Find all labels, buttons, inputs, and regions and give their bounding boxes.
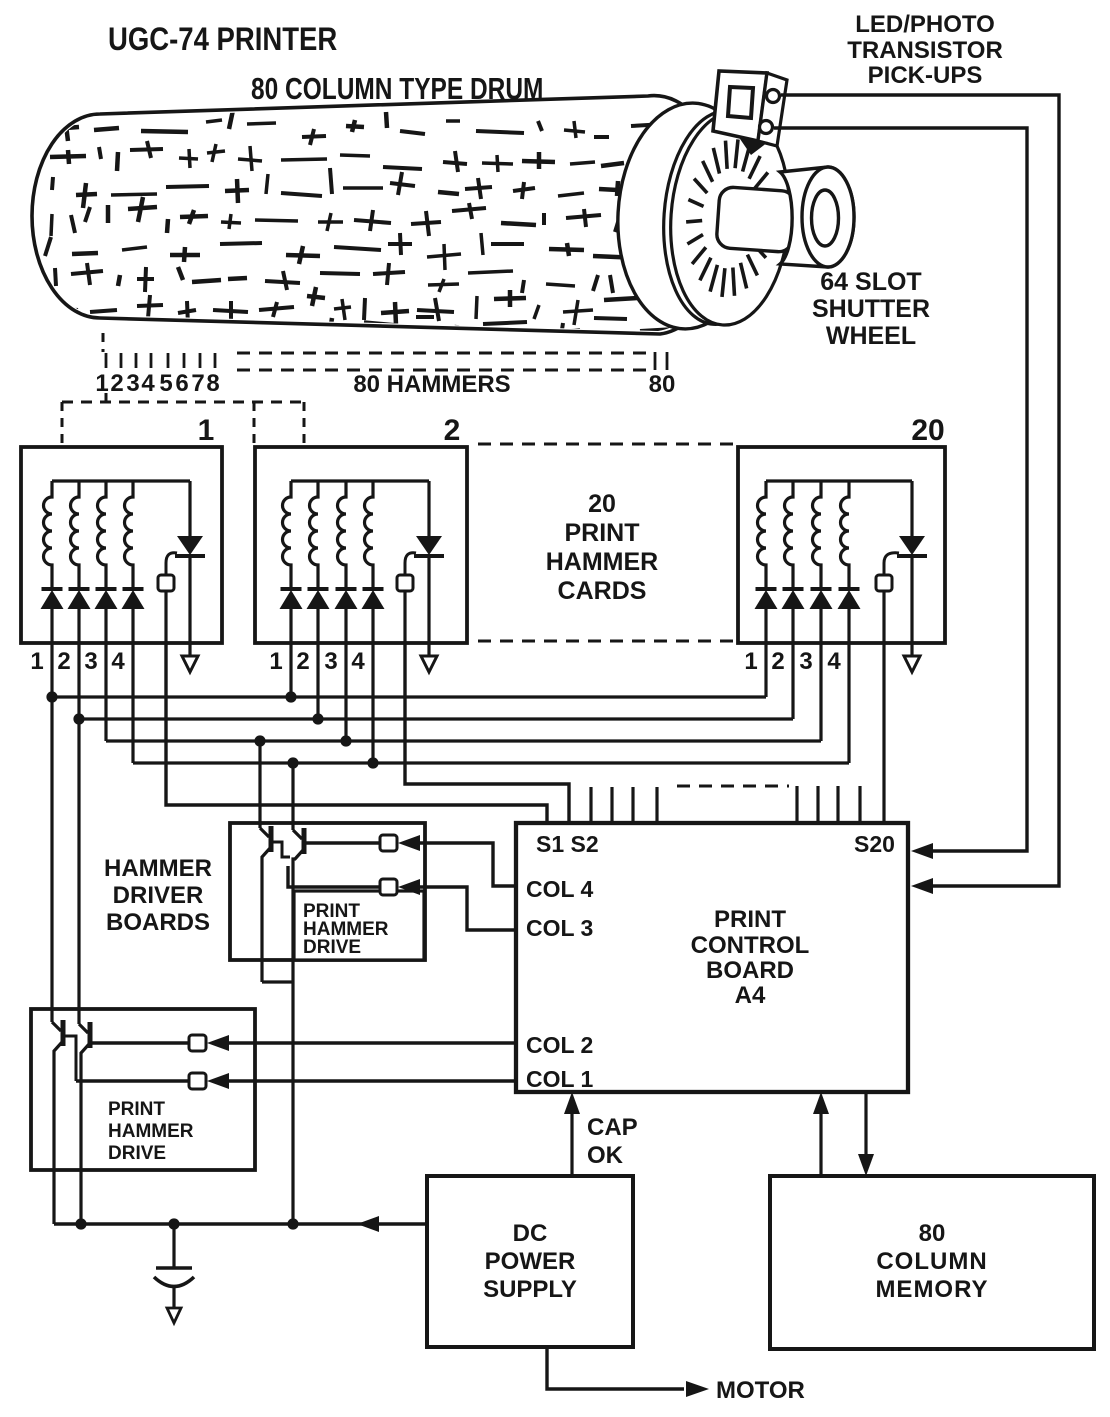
svg-text:SHUTTER: SHUTTER (812, 295, 930, 323)
dashed drop to card 1 (61, 402, 64, 447)
svg-text:7: 7 (191, 370, 204, 397)
svg-text:S20: S20 (854, 831, 895, 857)
wire board to memory down (864, 1092, 867, 1161)
svg-text:HAMMER: HAMMER (546, 548, 659, 576)
svg-text:COLUMN: COLUMN (876, 1248, 987, 1275)
svg-text:A4: A4 (735, 982, 766, 1009)
PHD2 feed from bus 1 (50, 697, 53, 1022)
svg-text:OK: OK (587, 1142, 624, 1169)
card 1 pin 1 lead (50, 609, 53, 643)
transistor Q1b (293, 830, 302, 839)
svg-text:2: 2 (296, 648, 309, 675)
coil L1-2 (71, 481, 80, 589)
svg-text:2: 2 (110, 370, 123, 397)
diode CR20-1 (756, 587, 777, 591)
svg-text:S1 S2: S1 S2 (536, 831, 599, 857)
svg-text:PRINT: PRINT (714, 906, 786, 933)
card 1 pin 4 lead (131, 609, 134, 643)
svg-text:3: 3 (799, 648, 812, 675)
arrowhead COL1 (207, 1073, 229, 1089)
card 2 pin 4 lead (371, 609, 374, 643)
80 column memory box (770, 1176, 1094, 1349)
svg-text:BOARDS: BOARDS (106, 909, 210, 936)
svg-text:4: 4 (827, 648, 841, 675)
svg-text:WHEEL: WHEEL (826, 322, 916, 350)
diode CR1-2 (69, 587, 90, 591)
dashed link from numbers down (105, 393, 108, 402)
svg-text:8: 8 (206, 370, 219, 397)
svg-text:64 SLOT: 64 SLOT (820, 268, 921, 296)
card 2 pin 3 lead (344, 609, 347, 643)
coil L20-1 (758, 481, 767, 589)
diode CR20-4 (839, 587, 860, 591)
print hammer drive board 1 box (230, 823, 425, 960)
svg-text:DRIVE: DRIVE (303, 937, 361, 958)
coil L2-4 (365, 481, 374, 589)
card 2 pin 2 lead (316, 609, 319, 643)
svg-text:4: 4 (351, 648, 365, 675)
svg-text:DRIVER: DRIVER (113, 882, 204, 909)
card 20 pin 2 lead (791, 609, 794, 643)
arrowhead COL2 (207, 1035, 229, 1051)
svg-text:1: 1 (269, 648, 282, 675)
arrowhead COL4 (398, 835, 420, 851)
svg-text:2: 2 (444, 414, 461, 447)
svg-text:DRIVE: DRIVE (108, 1143, 166, 1164)
strobe connector square card 20 (876, 575, 892, 591)
coil L2-2 (310, 481, 319, 589)
svg-text:UGC-74 PRINTER: UGC-74 PRINTER (108, 22, 337, 57)
diode CR20-2 (783, 587, 804, 591)
diode CR2-4 (363, 587, 384, 591)
wire S20 strobe route (882, 643, 885, 823)
connector square COL2 (189, 1035, 206, 1051)
svg-text:20: 20 (588, 490, 616, 518)
coil L2-1 (283, 481, 292, 589)
dashed 80 hammers row upper (237, 352, 648, 355)
svg-text:2: 2 (771, 648, 784, 675)
svg-text:BOARD: BOARD (706, 957, 794, 984)
card 20 pin 3 lead (819, 609, 822, 643)
svg-text:SUPPLY: SUPPLY (483, 1276, 577, 1303)
svg-text:80: 80 (649, 371, 676, 398)
connector square COL1 (189, 1073, 206, 1089)
64 slot shutter wheel (657, 107, 802, 330)
PHD2 feed from bus 2 (77, 719, 80, 1024)
wheel slot marks (756, 230, 772, 237)
transistor Q1a (260, 828, 269, 837)
SCR Q20 (910, 481, 913, 536)
svg-text:5: 5 (159, 370, 172, 397)
svg-text:3: 3 (126, 370, 139, 397)
svg-text:4: 4 (141, 370, 155, 397)
coil L1-3 (98, 481, 107, 589)
svg-text:HAMMER: HAMMER (104, 855, 212, 882)
svg-text:20: 20 (911, 414, 944, 447)
hammer tick marks 1-8 (105, 353, 108, 368)
wire S1 strobe route (166, 643, 547, 823)
strobe lead card 20 (882, 591, 885, 643)
card 2 internal top bus (291, 479, 429, 482)
strobe connector square card 1 (158, 575, 174, 591)
svg-text:DC: DC (513, 1220, 548, 1247)
svg-text:COL 1: COL 1 (526, 1066, 594, 1092)
svg-text:80: 80 (919, 1220, 946, 1247)
svg-text:PICK-UPS: PICK-UPS (868, 62, 983, 89)
wire CAP OK (570, 1107, 573, 1176)
card 1 internal top bus (52, 479, 190, 482)
svg-text:3: 3 (84, 648, 97, 675)
card 2 pin 1 lead (289, 609, 292, 643)
diode CR2-2 (308, 587, 329, 591)
arrowhead DC supply feed (357, 1216, 379, 1232)
wire COL3 row (288, 866, 380, 887)
wire COL2 row (90, 1041, 189, 1044)
wire bus pins 4 (133, 761, 849, 764)
svg-text:LED/PHOTO: LED/PHOTO (855, 11, 995, 38)
diode CR20-3 (811, 587, 832, 591)
dashed 20 print hammer cards box top (478, 443, 738, 446)
wire bus pins 2 (79, 717, 793, 720)
wire S2 strobe route (405, 643, 569, 823)
wire COL1 row (76, 1079, 189, 1082)
svg-text:COL 3: COL 3 (526, 915, 593, 941)
arrowhead up into board (813, 1092, 829, 1114)
dashed 20 print hammer cards box bottom (478, 640, 738, 643)
svg-text:HAMMER: HAMMER (108, 1121, 194, 1142)
pickup pointer arrow (738, 136, 768, 155)
diode CR1-4 (123, 587, 144, 591)
board top stub pins left (589, 787, 592, 823)
card 20 pin 1 lead (764, 609, 767, 643)
drum end rim (612, 99, 766, 332)
card 20 internal top bus (766, 479, 912, 482)
DC power supply box (427, 1176, 633, 1347)
svg-text:2: 2 (57, 648, 70, 675)
shaft end cylinder (780, 167, 854, 267)
wire MOTOR (547, 1347, 684, 1389)
connector square COL3 (380, 879, 397, 895)
dashed horizontal link (62, 401, 304, 404)
card 1 pin 3 lead (104, 609, 107, 643)
transistor Q2b (79, 1024, 88, 1033)
transistor Q2a (52, 1022, 61, 1031)
print hammer drive board 2 box (31, 1009, 255, 1170)
coil L20-4 (841, 481, 850, 589)
svg-text:CAP: CAP (587, 1114, 638, 1141)
print hammer card 2 (255, 447, 467, 643)
80 column type drum body (32, 96, 729, 334)
svg-text:1: 1 (95, 370, 108, 397)
capacitor chassis arrow (167, 1308, 181, 1323)
svg-text:MOTOR: MOTOR (716, 1377, 805, 1404)
wire DC supply bus (54, 1222, 427, 1225)
board top stub pins right (795, 786, 798, 823)
svg-text:PRINT: PRINT (108, 1099, 165, 1120)
arrowhead CAP OK (564, 1092, 580, 1114)
dashed strobe continuation (677, 785, 789, 788)
chassis arrow card 1 (182, 656, 198, 672)
wheel hub (716, 186, 796, 252)
arrowhead MOTOR (686, 1381, 709, 1397)
diode CR1-3 (96, 587, 117, 591)
coil L1-1 (44, 481, 53, 589)
arrowhead down into memory (858, 1154, 874, 1176)
diode CR1-1 (42, 587, 63, 591)
chassis arrow card 20 (904, 656, 920, 672)
svg-text:COL 4: COL 4 (526, 876, 594, 902)
SCR Q1 (188, 481, 191, 536)
diode CR2-3 (336, 587, 357, 591)
strobe lead card 1 (164, 591, 167, 643)
svg-text:6: 6 (175, 370, 188, 397)
svg-text:4: 4 (111, 648, 125, 675)
SCR 20 gate lead (884, 553, 899, 575)
arrowhead into board right edge upper (911, 843, 933, 859)
coil L2-3 (338, 481, 347, 589)
hammer tick marks 80 (654, 352, 657, 370)
strobe lead card 2 (403, 591, 406, 643)
card1 pin1 drop / card20 pin1 drop (50, 643, 53, 697)
print hammer card 20 (738, 447, 945, 643)
connector square COL4 (380, 835, 397, 851)
chassis arrow card 2 (421, 656, 437, 672)
wire pickup upper to right bus (781, 95, 1059, 886)
drum type-character hatching (45, 110, 684, 344)
svg-text:COL 2: COL 2 (526, 1032, 593, 1058)
svg-text:1: 1 (744, 648, 757, 675)
SCR Q2 (427, 481, 430, 536)
print hammer card 1 (21, 447, 222, 643)
svg-text:80 HAMMERS: 80 HAMMERS (353, 371, 510, 398)
SCR 2 gate lead (405, 553, 416, 575)
capacitor C1 (172, 1224, 175, 1267)
svg-text:1: 1 (30, 648, 43, 675)
PHD1 label box (294, 891, 424, 960)
print control board A4 (516, 823, 908, 1092)
svg-text:CARDS: CARDS (558, 577, 647, 605)
coil L20-2 (785, 481, 794, 589)
card 1 pin 2 lead (77, 609, 80, 643)
arrowhead into board right edge lower (911, 878, 933, 894)
PHD1 feed from bus 4 (291, 763, 294, 830)
svg-text:3: 3 (324, 648, 337, 675)
LED/photo transistor pick-up bracket (713, 71, 767, 141)
coil L20-3 (813, 481, 822, 589)
card 20 pin 4 lead (847, 609, 850, 643)
arrowhead COL3 (398, 879, 420, 895)
wire bus pins 3 (106, 739, 821, 742)
svg-text:POWER: POWER (485, 1248, 576, 1275)
svg-text:CONTROL: CONTROL (691, 932, 810, 959)
svg-text:MEMORY: MEMORY (875, 1276, 988, 1303)
dashed line drum column 1 (102, 333, 105, 352)
wire pickup lower to right bus (774, 128, 1027, 851)
diode CR2-1 (281, 587, 302, 591)
wire bus pins 1 (52, 695, 766, 698)
svg-text:PRINT: PRINT (565, 519, 640, 547)
dashed drop to card 2 left (253, 402, 256, 447)
svg-text:TRANSISTOR: TRANSISTOR (847, 37, 1003, 64)
wire COL4 row (304, 841, 380, 844)
svg-text:1: 1 (198, 414, 215, 447)
strobe connector square card 2 (397, 575, 413, 591)
PHD1 feed from bus 3 (258, 741, 261, 828)
SCR 1 gate lead (166, 553, 177, 575)
dashed drop to card 2 (303, 402, 306, 447)
coil L1-4 (125, 481, 134, 589)
dashed 80 hammers row lower (237, 369, 648, 372)
PHD1 join below box (262, 980, 293, 983)
wire memory to board up (819, 1107, 822, 1176)
